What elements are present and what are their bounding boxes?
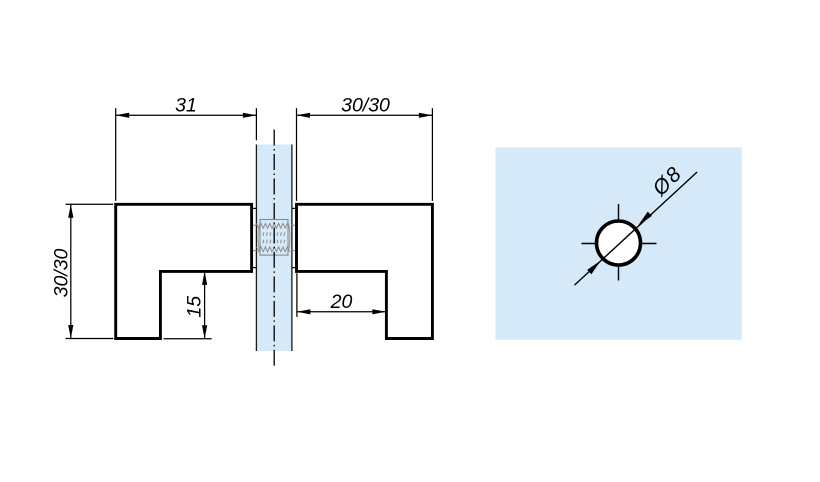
threaded stud body (gray rectangle) (260, 220, 288, 256)
dimension 30/30 top: extension line left (296, 108, 298, 201)
svg-text:30/30: 30/30 (51, 248, 73, 297)
dimension 30/30 left: extension line bottom (66, 338, 114, 340)
dimension 30/30 top: right arrow (419, 113, 433, 118)
svg-text:20: 20 (330, 291, 353, 313)
dimension 31: left arrow (116, 113, 130, 118)
stud thread zigzag bottom (257, 247, 290, 252)
right knob outline (297, 204, 433, 338)
dimension 15: extension line bottom (164, 338, 212, 340)
dimension 20: right arrow (372, 309, 386, 314)
stud side arc right (288, 221, 290, 255)
hole circle Ø8 (597, 221, 641, 265)
dimension 31: extension line right (glass face) (255, 108, 257, 140)
svg-text:31: 31 (175, 95, 197, 117)
left knob neck step top (252, 207, 256, 209)
dimension 20: extension line left (296, 273, 298, 317)
centerline (dash-dot) of glass axis (273, 130, 275, 366)
right knob neck step top (292, 207, 297, 209)
stud knurl ticks row 2 (263, 240, 285, 243)
dimension 30/30 left: dimension line (70, 204, 72, 338)
leader line diagonal (575, 172, 698, 285)
dimension 30/30 top: extension line right (431, 108, 433, 201)
glass panel front view (light blue square) (495, 147, 741, 339)
dimension 30/30 top: left arrow (297, 113, 311, 118)
stud crest line bottom left (251, 250, 256, 252)
glass left edge (255, 145, 257, 352)
stud crest line top right (292, 224, 297, 226)
hole crosshair horizontal (582, 243, 657, 245)
dimension 31: dimension line (116, 114, 257, 116)
stud thread zigzag top (257, 223, 290, 228)
glass panel (section view, light blue strip) (256, 145, 292, 352)
leader arrow lower (points to circle) (587, 261, 601, 275)
dimension 15: dimension line (204, 271, 206, 338)
right knob neck step bottom (292, 267, 297, 269)
dimension 31: extension line left (115, 108, 117, 201)
dimension 20: dimension line (297, 311, 386, 313)
left knob neck step bottom (252, 267, 256, 269)
stud crest line top left (251, 224, 256, 226)
left knob outline (116, 204, 252, 338)
dimension 30/30 top: dimension line (297, 114, 433, 116)
stud side arc left (258, 221, 260, 255)
glass right edge (291, 145, 293, 352)
dimension 15: top arrow (202, 271, 207, 285)
hole crosshair vertical (618, 204, 620, 281)
dimension 31: right arrow (243, 113, 257, 118)
dimension 30/30 left: top arrow (68, 204, 73, 218)
dimension 30/30 left: extension line top (66, 203, 114, 205)
stud knurl ticks row 1 (263, 232, 285, 235)
dimension 30/30 left: bottom arrow (68, 325, 73, 339)
svg-text:30/30: 30/30 (341, 95, 390, 117)
svg-text:15: 15 (184, 296, 206, 318)
dimension 15: bottom arrow (202, 325, 207, 339)
dimension 20: left arrow (297, 309, 311, 314)
stud crest line bottom right (292, 250, 297, 252)
leader arrow upper (points to circle) (638, 212, 652, 226)
